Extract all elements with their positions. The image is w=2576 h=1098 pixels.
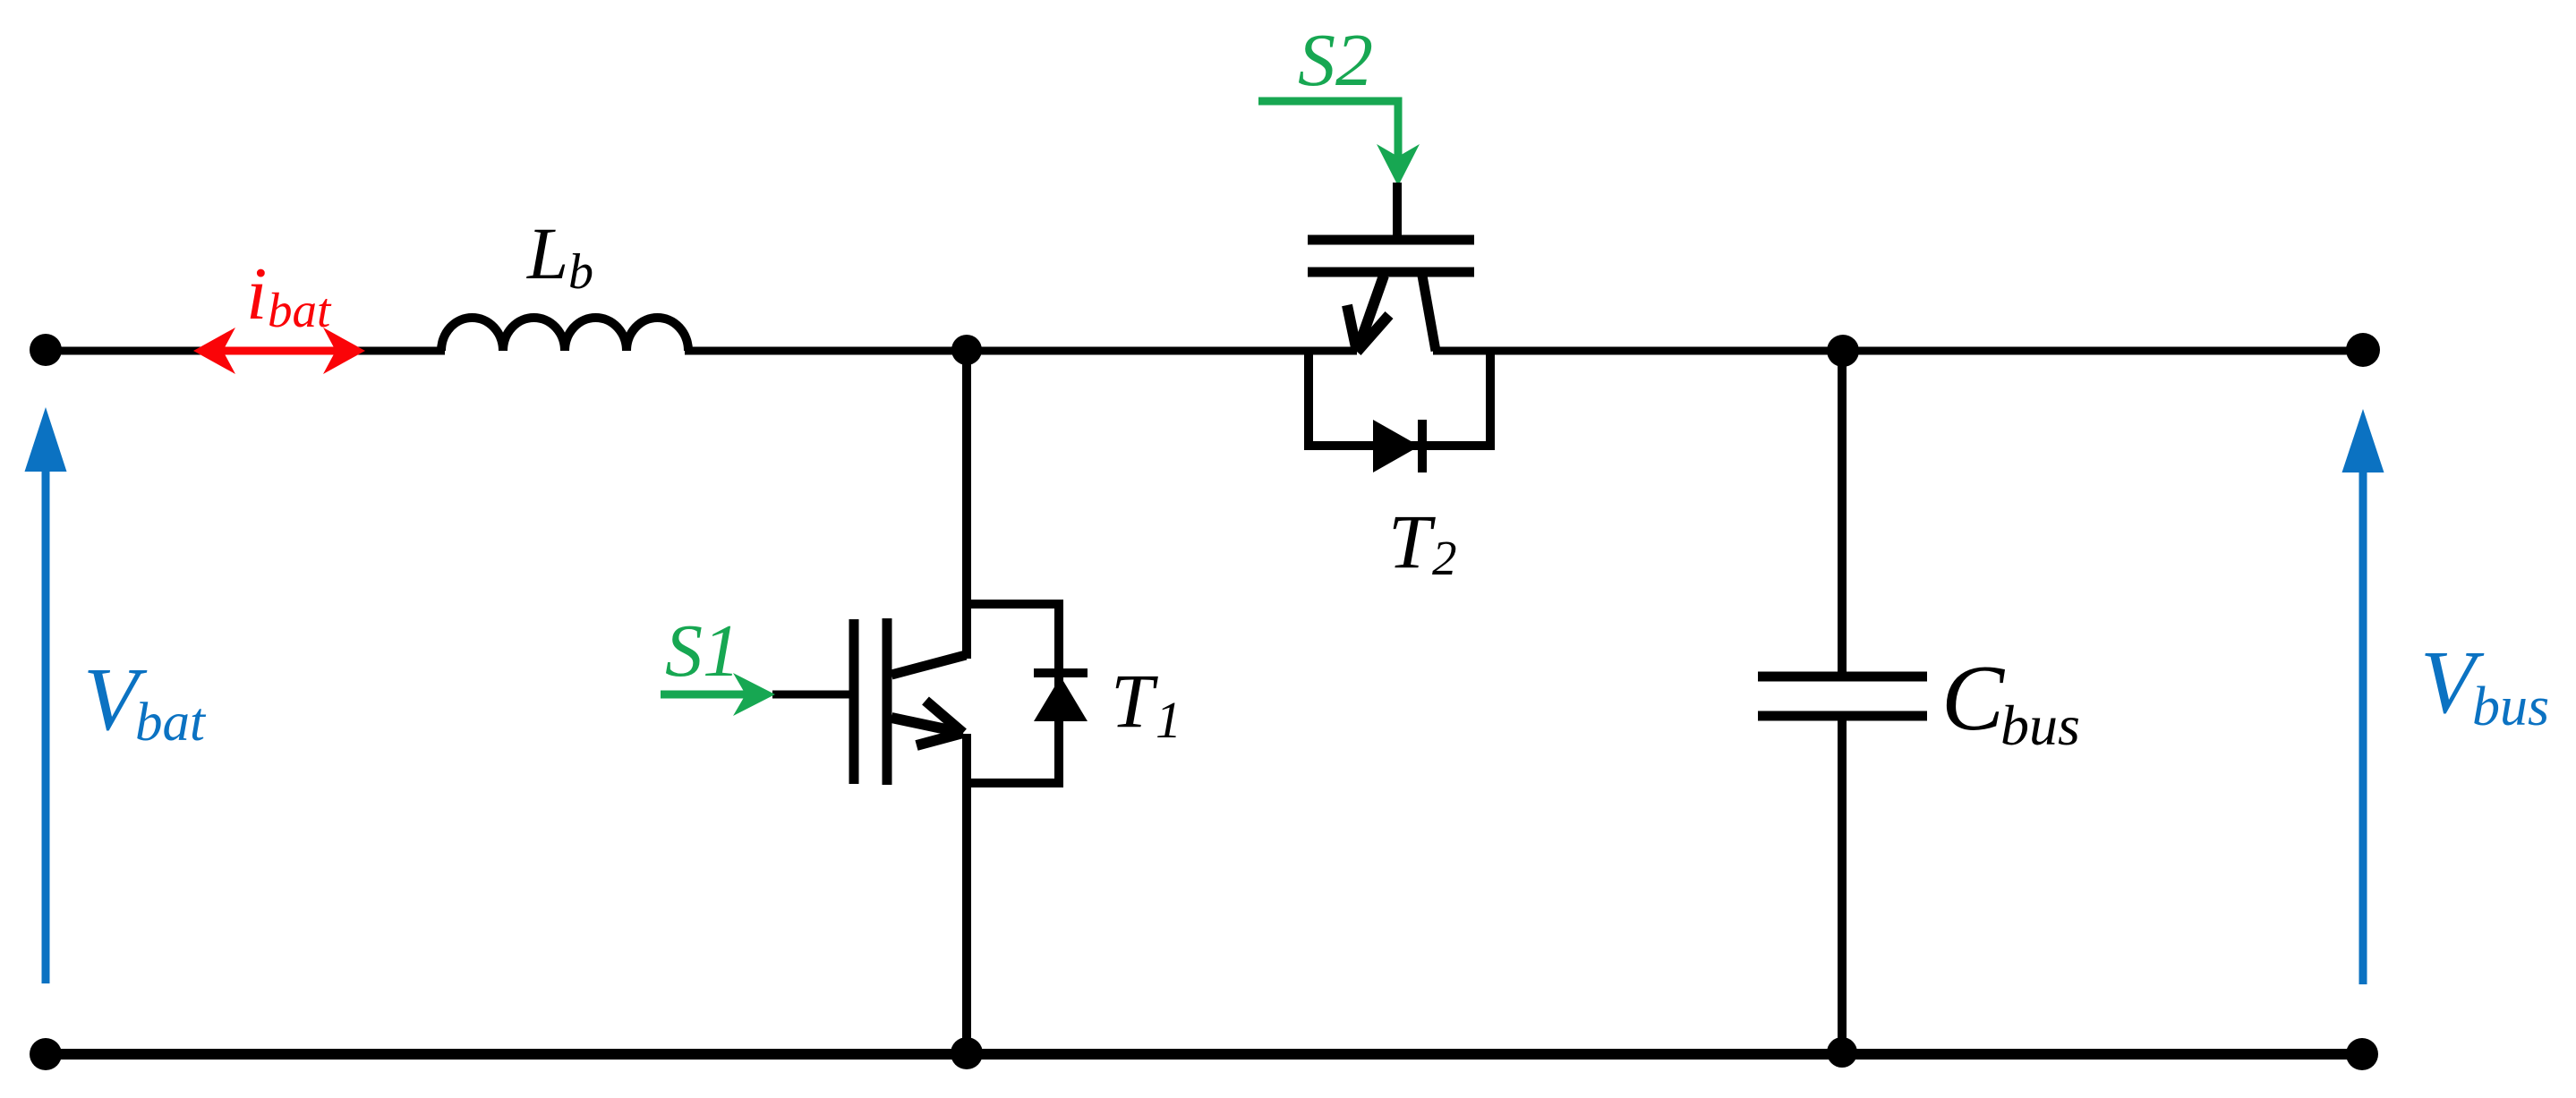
node T1 top junction [951,335,982,365]
node battery + terminal (top-left) [30,334,62,366]
wire inductor to T2 [685,347,1357,355]
svg-text:bat: bat [268,283,332,337]
wire T2 gate stem [1393,183,1402,240]
wire battery to inductor [46,347,445,355]
svg-text:bus: bus [2000,694,2080,757]
transistor T2 collector lead [1422,276,1436,351]
node C_bus top junction [1827,335,1859,367]
svg-text:i: i [246,252,267,336]
capacitor C_bus bottom plate [1758,711,1927,721]
gate signal arrow S1 (green) [661,691,761,699]
voltage arrow V_bus (blue) [2359,465,2367,984]
svg-text:T: T [1111,658,1158,744]
current arrow i_bat (red, double-headed) [215,347,345,355]
svg-text:1: 1 [1156,691,1181,749]
svg-text:T: T [1388,498,1436,584]
node bus + terminal (top-right) [2346,333,2380,367]
transistor T1 emitter arrow [891,718,963,733]
transistor T1 gate bar [849,619,859,784]
transistor T1 body bar [883,618,892,785]
wire T1 diode loop [967,604,1059,783]
node bottom-left [30,1038,62,1070]
svg-text:S1: S1 [665,609,740,693]
inductor L_b [441,318,688,351]
bottom rail wire [46,1049,2362,1060]
gate signal arrow S2 (green) [1258,101,1398,173]
transistor T2 emitter arrow [1357,276,1384,352]
wire T1 emitter to bottom rail [962,734,971,1054]
voltage arrow V_bat (blue) [42,465,50,983]
diode D1 cathode bar [1034,668,1088,677]
diode D2 cathode bar [1418,420,1427,472]
wire C_bus upper [1838,351,1847,677]
transistor T2 body bar [1308,268,1474,277]
node C_bus bottom junction [1827,1037,1857,1068]
svg-text:C: C [1941,645,2006,750]
diode D2 triangle [1373,420,1420,472]
svg-text:bat: bat [135,693,207,753]
wire C_bus lower [1838,716,1847,1054]
svg-text:L: L [526,212,568,294]
svg-text:b: b [568,244,593,300]
wire T2 to bus terminal [1433,347,2363,355]
diode D1 triangle [1034,677,1088,721]
wire T1 branch upper [962,351,971,659]
node bottom-right [2346,1038,2378,1070]
capacitor C_bus top plate [1758,672,1927,682]
svg-text:S2: S2 [1298,19,1373,102]
transistor T1 collector lead [891,655,966,675]
svg-text:bus: bus [2472,677,2549,737]
svg-text:2: 2 [1432,531,1457,585]
node T1 bottom junction [951,1037,983,1069]
wire T2 diode loop [1309,351,1490,446]
transistor T2 gate bar [1308,235,1474,245]
wire T1 gate lead [772,691,850,699]
